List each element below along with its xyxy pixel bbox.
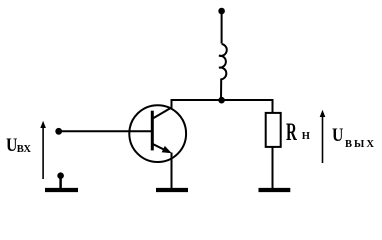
input lower terminal dot: [57, 172, 64, 179]
transistor VT1 emitter arrowhead: [162, 146, 172, 153]
label U_vx : subscript VX: [17, 145, 31, 156]
wire: collector bus (transistor collector to resistor): [172, 100, 273, 113]
node: junction dot at inductor/bus: [218, 97, 225, 104]
transistor VT1 base bar: [151, 111, 154, 151]
label U_vyx : subscript VYX: [345, 140, 376, 151]
transistor VT1 collector lead: [152, 99, 171, 119]
top supply terminal dot: [218, 8, 225, 15]
arrow U_vyx (output voltage): [322, 115, 324, 163]
ground bar under resistor: [259, 188, 291, 192]
transistor VT1 emitter lead with arrow: [152, 144, 168, 152]
wire: input terminal to base: [60, 130, 152, 132]
arrow U_vx (input voltage): [42, 126, 44, 179]
transistor VT1 body circle: [129, 105, 186, 162]
wire: resistor bottom to ground: [272, 147, 274, 188]
label U_vyx : U: [332, 126, 343, 145]
ground bar at input lower terminal: [45, 188, 78, 192]
input lower terminal stub: [59, 176, 62, 188]
wire: supply terminal to inductor top: [221, 11, 223, 44]
wire: emitter to ground: [171, 153, 173, 189]
label R_n : subscript N: [302, 132, 310, 143]
input terminal dot: [55, 128, 62, 135]
ground bar under transistor emitter: [156, 188, 188, 192]
label R_n : R: [286, 120, 297, 145]
label U_vx : U: [6, 136, 17, 155]
inductor L1 coil: [219, 44, 227, 100]
resistor R_n body box: [266, 113, 281, 147]
